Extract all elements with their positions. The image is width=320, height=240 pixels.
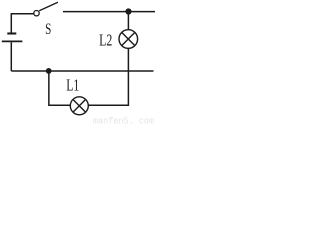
middle rail wire (battery negative to right edge)	[11, 70, 153, 72]
svg-text:L1: L1	[66, 76, 79, 95]
wire: battery top to switch (left vertical + top-left horizontal)	[11, 14, 33, 33]
wire: L2 bottom down and left to lamp L1	[88, 48, 128, 105]
battery B (bottom long plate)	[2, 40, 23, 42]
battery B (top short thick plate)	[7, 32, 16, 34]
switch S pivot circle	[34, 11, 39, 16]
junction dot on middle rail / L1 branch	[46, 68, 52, 74]
switch S lever (open)	[39, 2, 58, 11]
junction dot at top rail / L2 branch	[125, 8, 131, 14]
svg-text:manfen5. com: manfen5. com	[93, 117, 154, 127]
lamp L1 (circle with cross)	[70, 97, 88, 115]
svg-text:L2: L2	[99, 30, 112, 49]
wire: top rail right of switch	[63, 11, 155, 13]
lamp L2 (circle with cross)	[119, 30, 138, 49]
wire: battery bottom to middle rail	[10, 42, 12, 71]
wire: L2 branch from top dot to lamp	[127, 12, 129, 31]
wire: L1 branch from middle dot down and right to lamp	[49, 71, 71, 105]
svg-text:S: S	[45, 21, 51, 38]
